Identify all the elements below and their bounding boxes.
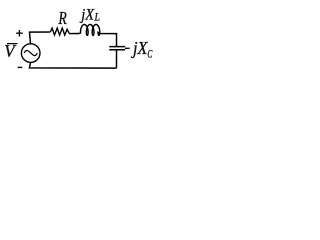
wire: bottom bbox=[29, 63, 116, 68]
capacitor C1 top plate bbox=[109, 46, 125, 48]
capacitor C1 bottom plate bbox=[109, 49, 125, 51]
label -jXC bbox=[125, 47, 130, 49]
ac source V circle bbox=[21, 44, 40, 63]
wire: capacitor to bottom-right corner bbox=[116, 50, 118, 68]
svg-text:jX: jX bbox=[79, 7, 95, 24]
svg-text:C: C bbox=[147, 46, 153, 60]
plus sign at source top bbox=[16, 30, 23, 37]
minus sign at source bottom bbox=[18, 66, 23, 68]
svg-text:jX: jX bbox=[131, 38, 148, 58]
wire: top-left corner to resistor bbox=[30, 32, 51, 44]
resistor R1 zigzag bbox=[50, 28, 69, 35]
inductor L1 coil bbox=[80, 24, 117, 35]
wire: resistor to inductor bbox=[69, 33, 79, 35]
ac source sine wave bbox=[24, 51, 37, 56]
svg-text:R: R bbox=[58, 8, 67, 28]
wire: right vertical down to capacitor bbox=[116, 33, 118, 46]
svg-text:L: L bbox=[94, 10, 100, 24]
